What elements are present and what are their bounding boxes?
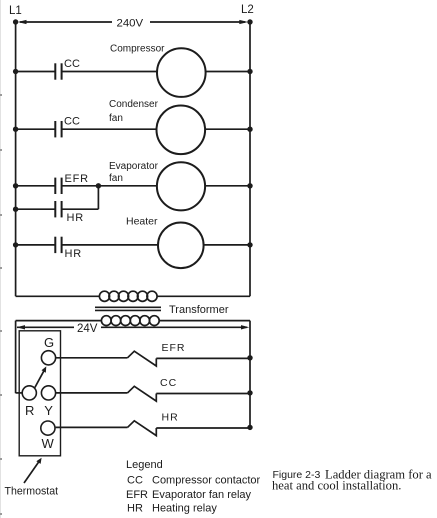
node CC right: [247, 390, 252, 395]
svg-text:CC: CC: [127, 475, 143, 487]
node L2 top: [247, 19, 252, 24]
svg-text:240V: 240V: [117, 18, 144, 30]
wire rung1 left: [16, 71, 56, 73]
node HR right: [247, 425, 252, 430]
contact CC (rung1): [55, 63, 61, 79]
node rung2 right: [247, 127, 252, 132]
wire CC rung right: [156, 393, 250, 395]
svg-text:CC: CC: [64, 116, 80, 128]
wire rung3 left: [16, 185, 56, 187]
wire rung1 mid: [62, 71, 157, 73]
svg-text:HR: HR: [67, 212, 85, 224]
svg-text:Y: Y: [44, 403, 53, 418]
node rung1 right: [247, 69, 252, 74]
coil Compressor: [157, 48, 206, 97]
svg-text:G: G: [44, 335, 54, 350]
node rung4 right: [247, 242, 252, 247]
svg-text:heat and cool installation.: heat and cool installation.: [272, 479, 401, 493]
transformer T1 core: [95, 307, 161, 310]
contact EFR: [55, 178, 61, 194]
wire rung2 left: [16, 128, 56, 130]
coil Heater: [158, 223, 204, 269]
svg-text:Legend: Legend: [126, 459, 163, 471]
svg-text:EFR: EFR: [126, 489, 148, 501]
svg-text:L2: L2: [241, 4, 254, 16]
thermostat box: [19, 331, 60, 456]
wire rung4 mid: [62, 244, 158, 246]
terminal G: [41, 351, 55, 365]
node rung2 left: [13, 127, 18, 132]
coil Condenser fan: [157, 106, 206, 155]
switch HR: [128, 421, 157, 436]
wire HR rung left: [56, 426, 128, 428]
legend: [126, 459, 261, 515]
node EFR right: [247, 355, 252, 360]
svg-text:fan: fan: [109, 113, 123, 124]
240V dimension line: [18, 20, 249, 24]
wire HR rung right: [156, 427, 250, 429]
node rung4 left: [13, 242, 18, 247]
terminal Y: [41, 386, 55, 400]
figure caption: [272, 468, 432, 493]
wire rung3 right: [205, 185, 250, 187]
svg-text:CC: CC: [160, 377, 177, 389]
svg-text:Evaporator fan relay: Evaporator fan relay: [152, 489, 252, 501]
terminal R: [22, 386, 36, 400]
svg-text:L1: L1: [9, 5, 22, 17]
node L1 top: [13, 19, 18, 24]
coil Evaporator fan: [157, 162, 205, 210]
svg-text:Compressor: Compressor: [110, 44, 165, 55]
svg-text:W: W: [42, 436, 55, 451]
wire EFR rung right: [156, 357, 250, 359]
svg-text:Evaporator: Evaporator: [109, 161, 159, 172]
node rung3 right: [247, 183, 252, 188]
contact HR (branch): [55, 201, 61, 217]
wire rung2 right: [205, 128, 250, 130]
svg-text:Heater: Heater: [126, 216, 158, 228]
svg-text:EFR: EFR: [65, 173, 89, 185]
wire secondary top left: [16, 320, 102, 322]
wire R to rail: [16, 392, 23, 394]
svg-text:HR: HR: [65, 248, 83, 260]
label Condenser fan: [109, 99, 159, 124]
wire rung4 right: [204, 244, 250, 246]
wire rung4 left: [16, 244, 56, 246]
svg-text:Transformer: Transformer: [169, 304, 229, 316]
wire rung3 mid: [62, 185, 157, 187]
thermostat switch arm R to G: [35, 366, 47, 387]
contact CC (rung2): [55, 121, 61, 137]
wire CC rung left: [56, 392, 128, 394]
rail secondary left: [15, 321, 17, 394]
wire rung1 right: [206, 71, 250, 73]
wire bottom left: [16, 295, 100, 297]
wire EFR rung left: [56, 357, 128, 359]
svg-text:HR: HR: [127, 503, 143, 515]
transformer T1 secondary winding: [101, 316, 159, 326]
24V dimension line: [17, 325, 250, 329]
wire branch HR left: [16, 208, 56, 210]
label Evaporator fan: [109, 161, 159, 184]
contact HR (rung4): [55, 237, 61, 253]
svg-text:Condenser: Condenser: [109, 99, 159, 110]
rail secondary right: [249, 321, 251, 428]
terminal W: [41, 421, 55, 435]
node branch HR left: [13, 207, 18, 212]
transformer T1 primary winding: [99, 291, 157, 301]
switch EFR: [128, 351, 157, 366]
svg-text:fan: fan: [109, 173, 123, 184]
rail L1: [15, 22, 17, 296]
svg-text:R: R: [25, 403, 34, 418]
wire rung2 mid: [62, 128, 157, 130]
wire secondary top right: [159, 320, 250, 322]
switch CC: [128, 386, 157, 401]
node rung3 junction: [96, 183, 101, 188]
scan edge marks: [0, 0, 2, 518]
node rung1 left: [13, 69, 18, 74]
svg-text:Thermostat: Thermostat: [5, 486, 59, 498]
svg-text:24V: 24V: [77, 323, 98, 335]
node rung3 left: [13, 183, 18, 188]
svg-text:EFR: EFR: [162, 342, 186, 354]
thermostat pointer arrow: [24, 458, 42, 483]
svg-text:CC: CC: [64, 58, 80, 70]
svg-text:Compressor contactor: Compressor contactor: [152, 475, 261, 487]
wire branch HR vertical: [97, 186, 99, 209]
wire bottom right: [157, 295, 250, 297]
wire branch HR right: [62, 208, 99, 210]
rail L2: [249, 22, 251, 296]
svg-text:Heating relay: Heating relay: [152, 503, 217, 515]
svg-text:HR: HR: [162, 412, 179, 424]
